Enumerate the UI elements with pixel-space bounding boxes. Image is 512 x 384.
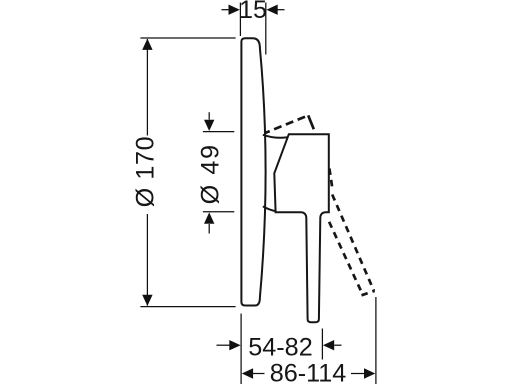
svg-text:Ø 49: Ø 49 <box>196 143 224 204</box>
svg-text:15: 15 <box>239 0 267 24</box>
svg-text:Ø 170: Ø 170 <box>132 136 160 208</box>
svg-text:86-114: 86-114 <box>270 360 347 384</box>
svg-text:54-82: 54-82 <box>248 333 312 361</box>
